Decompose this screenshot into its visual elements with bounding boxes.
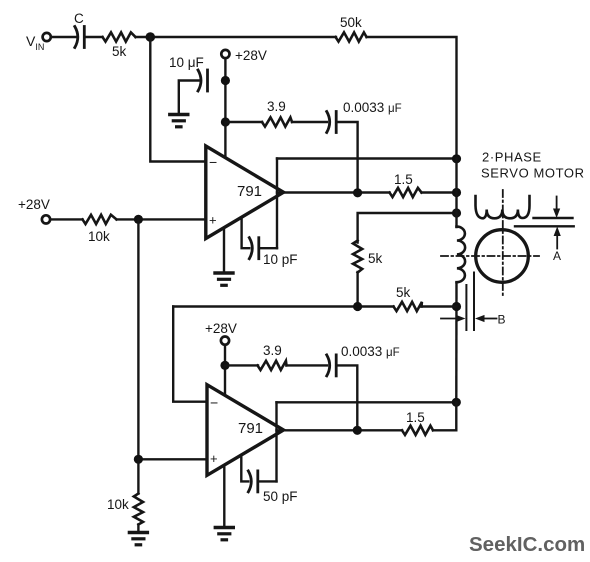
node 5k rail / motor junction	[452, 302, 461, 311]
wire U1 ground stem	[223, 228, 225, 273]
wire U1 output	[277, 191, 390, 193]
node damping/motor junction	[452, 208, 461, 217]
wire +28V stem	[224, 58, 226, 122]
gap A down arrow	[553, 197, 560, 219]
wire 50pF bracket right	[258, 480, 277, 482]
wire 10uF to ground	[179, 81, 199, 115]
wire VIN to C	[51, 36, 76, 38]
ground U2	[215, 528, 233, 540]
svg-text:0.0033 μF: 0.0033 μF	[341, 344, 400, 359]
power terminal +28V U2	[221, 337, 229, 345]
capacitor 50pF	[248, 471, 257, 492]
inductor motor winding horizontal	[476, 196, 530, 218]
resistor 1.5 U2	[402, 426, 433, 435]
svg-text:+28V: +28V	[205, 321, 237, 336]
resistor 5k vertical	[353, 241, 362, 273]
wire top rail left	[136, 36, 337, 38]
gap B left bar	[465, 285, 467, 330]
capacitor 10uF	[198, 70, 208, 91]
wire top rail right	[367, 37, 457, 159]
wire 50pF bracket left	[241, 456, 248, 481]
svg-text:C: C	[74, 11, 84, 26]
wire to R 3.9	[225, 121, 262, 123]
node 5k vert junction	[353, 302, 362, 311]
wire R3.9 to cap	[292, 121, 327, 123]
inductor motor winding vertical	[457, 227, 466, 283]
op-amp U2 791	[207, 385, 284, 476]
wire damping branch	[358, 213, 457, 243]
svg-text:5k: 5k	[396, 285, 411, 300]
wire 5k vert to rail	[356, 272, 358, 307]
wire 10k to U1 +	[117, 218, 205, 220]
svg-text:SERVO MOTOR: SERVO MOTOR	[481, 166, 585, 181]
wire motor line upper	[455, 159, 457, 228]
ground 10k	[129, 533, 147, 545]
svg-text:3.9: 3.9	[263, 343, 282, 358]
gap B right bar	[473, 273, 475, 331]
motor axis horizontal centerline	[441, 255, 539, 257]
svg-text:+: +	[210, 451, 218, 466]
svg-text:791: 791	[238, 420, 263, 437]
svg-text:5k: 5k	[112, 44, 127, 59]
wire to 10k vertical	[137, 459, 139, 493]
resistor 10k vertical	[134, 494, 143, 525]
svg-text:791: 791	[237, 183, 262, 200]
wire feedback rail U2	[277, 401, 457, 403]
wire 10pF bracket left	[242, 219, 250, 248]
wire U2 inverting branch	[173, 307, 205, 402]
wire U2 output riser	[275, 402, 277, 481]
svg-text:−: −	[210, 395, 218, 411]
svg-text:1.5: 1.5	[394, 172, 413, 187]
node junction VIN rail	[146, 32, 156, 42]
wire +28V U2 stem	[224, 345, 226, 396]
node bias junction	[134, 215, 143, 224]
node compensation junction	[221, 117, 230, 126]
svg-text:10k: 10k	[107, 497, 129, 512]
wire cap elbow to output	[336, 122, 357, 193]
svg-text:0.0033 μF: 0.0033 μF	[343, 100, 402, 115]
resistor 50k feedback	[336, 32, 367, 41]
capacitor 0.0033uF U2	[327, 355, 337, 376]
gap A upper reference line	[534, 217, 573, 219]
svg-text:50 pF: 50 pF	[263, 489, 298, 504]
motor rotor circle	[476, 230, 529, 283]
svg-text:5k: 5k	[368, 251, 383, 266]
resistor 10k input	[83, 215, 117, 224]
svg-text:+: +	[209, 213, 217, 228]
svg-text:10k: 10k	[88, 229, 110, 244]
wire U2 + input	[138, 458, 205, 460]
op-amp U1 791	[206, 146, 284, 239]
resistor 3.9 U1	[262, 117, 292, 126]
svg-text:−: −	[209, 154, 217, 170]
node supply U2 junction	[220, 361, 229, 370]
svg-text:10 pF: 10 pF	[263, 252, 298, 267]
node supply/cap junction	[221, 76, 230, 85]
capacitor 0.0033uF U1	[327, 112, 337, 133]
capacitor 10pF	[249, 238, 258, 259]
wire cap U2 elbow to output	[336, 365, 357, 430]
resistor 5k input	[103, 32, 136, 41]
resistor 5k horizontal	[394, 302, 422, 311]
input terminal +28V left	[42, 215, 50, 223]
wire 5k to motor line	[422, 305, 457, 307]
wire bias vertical	[137, 219, 139, 459]
svg-text:A: A	[553, 249, 561, 263]
wire motor line lower	[455, 284, 458, 403]
wire 10k to ground	[137, 525, 139, 533]
gap A up arrow	[554, 227, 561, 249]
gap A lower reference line	[515, 225, 574, 227]
wire 10pF bracket right	[259, 247, 277, 249]
svg-text:+28V: +28V	[235, 48, 267, 63]
node VIN input terminal	[43, 33, 51, 41]
node output U2 junction	[353, 426, 362, 435]
ground 10uF	[170, 115, 188, 127]
resistor 1.5 U1	[390, 188, 422, 197]
gap B right-pointing arrow	[441, 315, 466, 322]
svg-text:3.9: 3.9	[267, 99, 286, 114]
svg-text:SeekIC.com: SeekIC.com	[469, 533, 585, 556]
wire V+ pin U1	[224, 122, 226, 159]
node feedback U2 / motor junction	[452, 398, 461, 407]
svg-text:+28V: +28V	[18, 197, 50, 212]
motor axis vertical centerline	[502, 190, 504, 297]
node 10k junction	[134, 455, 143, 464]
wire inverting input branch	[150, 37, 204, 162]
node output U1 junction	[353, 188, 362, 197]
gap B left-pointing arrow	[475, 315, 497, 322]
wire terminal to 10k	[51, 218, 83, 220]
svg-text:2·PHASE: 2·PHASE	[482, 150, 542, 165]
wire 1.5 U2 elbow	[433, 402, 456, 430]
svg-text:B: B	[498, 313, 506, 327]
node motor phase A junction	[452, 188, 461, 197]
wire U2 ground stem	[223, 466, 225, 528]
svg-text:10 μF: 10 μF	[169, 55, 204, 70]
power terminal +28V U1	[221, 50, 229, 58]
svg-text:1.5: 1.5	[406, 410, 425, 425]
wire to R 3.9 U2	[225, 364, 258, 366]
capacitor C	[75, 27, 85, 48]
wire C to R 5k	[84, 36, 102, 38]
wire U1 output riser	[276, 159, 278, 249]
svg-text:50k: 50k	[340, 15, 362, 30]
wire U2 output	[277, 429, 403, 431]
wire 5k rail	[173, 305, 393, 307]
node feedback/motor junction	[452, 154, 461, 163]
wire R3.9 U2 to cap	[287, 364, 328, 366]
ground U1	[215, 273, 233, 285]
resistor 3.9 U2	[258, 361, 287, 370]
wire feedback rail U1	[277, 157, 457, 159]
wire 1.5 to motor	[422, 191, 457, 193]
